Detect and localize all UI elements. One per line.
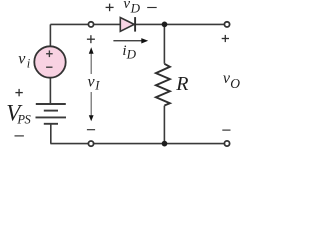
svg-text:PS: PS [16, 113, 31, 127]
svg-text:i: i [27, 57, 31, 71]
svg-text:D: D [126, 47, 137, 62]
svg-text:O: O [230, 76, 240, 91]
svg-text:R: R [175, 73, 188, 95]
svg-text:v: v [18, 50, 26, 67]
svg-text:D: D [130, 0, 141, 15]
svg-text:v: v [123, 0, 130, 12]
svg-text:I: I [94, 79, 100, 93]
